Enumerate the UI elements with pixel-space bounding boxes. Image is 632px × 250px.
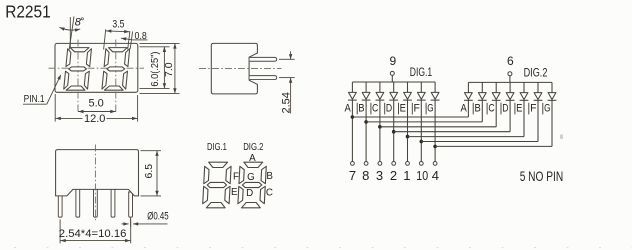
svg-text:E: E [516,103,522,115]
side view body outline [211,43,257,94]
svg-text:F: F [530,103,537,115]
wire segment C connector DIG.2 to DIG.1 junction [380,126,496,128]
svg-text:DIG.2: DIG.2 [243,141,263,153]
terminal pin 8 [364,162,368,166]
svg-text:DIG.1: DIG.1 [207,141,227,153]
wire segment A connector DIG.2 to DIG.1 junction [352,116,468,118]
wire DIG.2 bus to LED E [523,82,525,92]
cell separator (DIG.2 D/E) [514,103,516,115]
faint scan speck [560,135,563,140]
bottom view pin 1 [58,194,62,217]
svg-text:7: 7 [349,168,356,183]
wire DIG.1 bus to LED C [379,82,381,92]
cell separator (DIG.1 B/C) [370,103,372,115]
LED U1E (DIG.1 segment E) [403,92,412,100]
wire DIG.1 bus to LED E [407,82,409,92]
svg-text:DIG.2: DIG.2 [524,67,548,79]
svg-text:6.0(.25"): 6.0(.25") [150,52,161,87]
svg-text:1: 1 [403,168,410,183]
bottom view centerline [94,145,96,223]
terminal pin 10 [419,162,423,166]
svg-text:6: 6 [507,54,514,68]
wire DIG.1 bus to LED A [351,82,353,92]
svg-text:2: 2 [390,168,397,183]
wire DIG.2 bus to LED B [481,82,483,92]
svg-text:D: D [502,103,508,115]
LED U2F (DIG.2 segment F) [534,93,543,101]
svg-text:2.54*4=10.16: 2.54*4=10.16 [59,228,127,240]
dimension dia 0.45 [122,218,168,228]
wire segment E connector DIG.2 to DIG.1 junction [408,136,525,138]
centerline horizontal (front view) [49,67,145,69]
wire DIG.2 bus to LED G [551,82,553,92]
bottom view pin 2 [76,188,80,217]
terminal pin 2 [392,162,396,166]
DIG.1 digit (segment diagram) [203,162,232,208]
wire LED E cathode down (DIG.1) [407,100,409,161]
dimension 6.5 [141,151,162,196]
svg-text:F: F [413,103,420,115]
junction node F [420,140,424,144]
side view centerline [199,67,282,69]
LED U1G (DIG.1 segment G) [431,92,440,100]
side view pin 1 [250,57,277,61]
svg-text:5.0: 5.0 [89,98,104,110]
svg-text:G: G [544,103,550,115]
junction node E [406,135,410,139]
svg-text:A: A [249,153,256,164]
wire DIG.1 bus to LED D [393,82,395,92]
wire LED E cathode to connector (DIG.2) [523,100,525,136]
svg-text:6.5: 6.5 [143,164,155,179]
LED U2D (DIG.2 segment D) [506,93,515,101]
LED U1F (DIG.1 segment F) [417,92,426,100]
junction node C [378,125,382,129]
cell separator (DIG.2 C/D) [500,103,502,115]
wire segment G connector DIG.2 to DIG.1 junction [435,145,552,147]
svg-text:E: E [231,187,238,198]
wire DIG.2 bus to LED D [509,82,511,92]
svg-text:C: C [488,103,494,115]
wire LED F cathode down (DIG.1) [420,100,422,161]
digit 1 (front view 7-segment) [64,48,92,91]
terminal pin 3 [378,162,382,166]
wire DIG.1 bus to LED G [434,82,436,92]
svg-text:DIG.1: DIG.1 [410,67,432,79]
svg-text:R2251: R2251 [5,1,51,21]
bottom view pin 3 [94,188,98,217]
svg-text:G: G [427,103,433,115]
junction node B [364,120,368,124]
DIG.1 anode bus wire [352,81,435,83]
cell separator (DIG.2 B/C) [486,103,488,115]
cell separator (DIG.1 D/E) [398,103,400,115]
cell separator (DIG.2 A/B) [472,103,474,115]
LED U2C (DIG.2 segment C) [492,93,501,101]
dimension 6.0(.25") [140,47,170,89]
dimension 5.0 [78,111,116,113]
dimension 8 deg [59,17,80,50]
svg-text:C: C [372,103,378,115]
wire LED G cathode down (DIG.1) [434,100,436,161]
svg-text:A: A [461,103,468,115]
faint scan dots bottom edge [14,247,632,249]
svg-text:B: B [266,171,273,182]
cell separator (DIG.1 C/D) [384,103,386,115]
svg-text:0.8: 0.8 [135,30,147,42]
wire DIG.1 bus to LED F [420,82,422,92]
dimension 3.5 [104,29,130,49]
svg-text:7.0: 7.0 [163,62,175,77]
wire DIG.1 bus to LED B [365,82,367,92]
bottom view pin 4 [111,188,115,217]
dimension 7.0 [140,43,180,93]
wire segment F connector DIG.2 to DIG.1 junction [421,141,538,143]
svg-text:PIN.1: PIN.1 [24,94,45,105]
junction node A [351,115,355,119]
svg-text:2.54: 2.54 [281,92,293,113]
svg-text:3.5: 3.5 [112,18,124,30]
svg-text:10: 10 [416,168,428,183]
wire LED A cathode to connector (DIG.2) [467,100,469,117]
DIG.2 digit (segment diagram) [238,162,267,208]
terminal pin 1 [406,162,410,166]
svg-text:8: 8 [75,17,82,29]
wire LED C cathode to connector (DIG.2) [495,100,497,127]
LED U1C (DIG.1 segment C) [376,92,385,100]
dimension 0.8 [121,31,147,48]
junction node G [433,145,437,149]
terminal pin 4 [433,162,437,166]
cell separator (DIG.1 E/F) [411,103,413,115]
LED U2A (DIG.2 segment A) [464,93,473,101]
wire LED B cathode to connector (DIG.2) [481,100,483,122]
cell separator (DIG.2 E/F) [528,103,530,115]
LED U1A (DIG.1 segment A) [348,92,357,100]
wire DIG.2 bus to LED F [537,82,539,92]
wire segment B connector DIG.2 to DIG.1 junction [366,121,482,123]
svg-text:3: 3 [376,168,383,183]
wire LED C cathode down (DIG.1) [379,100,381,161]
LED U2E (DIG.2 segment E) [520,93,529,101]
svg-text:D: D [386,103,392,115]
wire DIG.2 bus to LED A [467,82,469,92]
LED U2G (DIG.2 segment G) [548,93,557,101]
centerline vertical digit 2 [115,40,117,114]
LED U1D (DIG.1 segment D) [389,92,398,100]
cell separator (DIG.1 F/G) [425,103,427,115]
cell separator (DIG.1 A/B) [356,103,358,115]
LED U2B (DIG.2 segment B) [478,93,487,101]
bottom view pin 5 [129,192,133,217]
wire LED A cathode down (DIG.1) [351,100,353,161]
DIG.2 anode bus wire [468,81,552,83]
svg-text:D: D [246,188,253,199]
cell separator (DIG.2 F/G) [542,103,544,115]
display body outline (front view) [55,43,138,92]
digit 2 (front view 7-segment) [102,48,130,91]
svg-text:C: C [266,187,273,198]
svg-text:9: 9 [390,54,397,68]
svg-text:8: 8 [362,168,369,183]
wire DIG.2 bus to LED C [495,82,497,92]
side view pin 2 [250,76,277,80]
terminal pin 7 [351,162,355,166]
svg-text:F: F [233,171,239,182]
bottom view body outline [56,150,139,196]
svg-text:5 NO PIN: 5 NO PIN [520,168,564,184]
svg-text:12.0: 12.0 [84,113,105,125]
wire pin6 to DIG.2 anode bus [509,76,511,83]
svg-text:B: B [358,103,364,115]
svg-text:B: B [474,103,480,115]
svg-text:4: 4 [432,168,439,183]
dimension 2.54*4=10.16 [60,219,131,243]
svg-text:G: G [247,172,255,183]
wire LED B cathode down (DIG.1) [365,100,367,161]
svg-text:A: A [345,103,352,115]
wire segment D connector DIG.2 to DIG.1 junction [394,131,510,133]
dimension 2.54 (side view) [279,51,295,113]
terminal pin 6 [508,72,512,76]
wire LED F cathode to connector (DIG.2) [537,100,539,141]
junction node D [392,130,396,134]
wire LED G cathode to connector (DIG.2) [551,100,553,146]
dimension 12.0 [55,94,137,122]
wire pin9 to DIG.1 anode bus [391,75,393,82]
LED U1B (DIG.1 segment B) [362,92,371,100]
wire LED D cathode down (DIG.1) [393,100,395,161]
svg-text:Ø0.45: Ø0.45 [147,210,169,222]
centerline vertical digit 1 [77,40,79,114]
svg-text:E: E [400,103,406,115]
wire LED D cathode to connector (DIG.2) [509,100,511,131]
terminal pin 9 [390,71,394,75]
